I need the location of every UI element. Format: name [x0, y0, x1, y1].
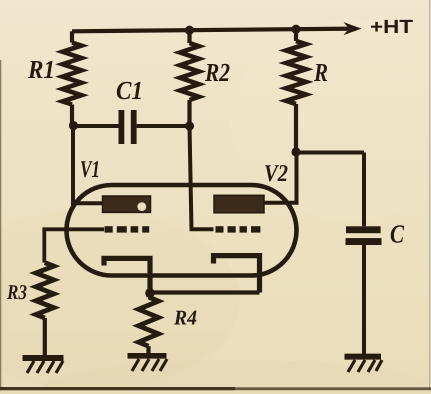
node A (R1 / C1 junction) [69, 121, 78, 130]
anode V2 (plate) [214, 195, 264, 213]
wire C bottom lead [362, 245, 366, 355]
page edge right [429, 0, 430, 390]
tube V1 V2 envelope [67, 185, 297, 276]
label C [391, 225, 404, 242]
grid V1 (dashes) [105, 226, 150, 232]
label +HT [371, 20, 413, 33]
resistor R [294, 29, 298, 41]
cathode V2 [214, 256, 260, 293]
label V2 [265, 165, 287, 181]
wire C1 right lead [137, 124, 190, 128]
capacitor C1 [119, 110, 125, 144]
node cathode junction [145, 288, 155, 298]
wire HT rail [72, 29, 356, 32]
resistor R3 [36, 263, 54, 318]
label C1 [117, 82, 141, 99]
wire node B to V2 grid [190, 126, 214, 229]
node B (R2 bottom / C1 right junction) [185, 121, 194, 130]
node C (R bottom junction) [291, 147, 300, 156]
label R3 [7, 285, 27, 299]
node R top on HT rail [291, 25, 300, 34]
resistor R4 [146, 293, 151, 297]
ground for R4 [128, 356, 168, 371]
anode V1 (plate) [103, 196, 151, 212]
wire cathode bus [150, 290, 260, 294]
wire C top lead [362, 153, 366, 227]
wire node C to capacitor C [296, 151, 364, 155]
wire V1 grid to R3 [44, 229, 104, 262]
wire C1 left lead [73, 124, 119, 128]
page edge bottom [0, 387, 431, 390]
label R [314, 64, 327, 81]
label R1 [28, 61, 53, 78]
cathode V1 [104, 258, 150, 292]
arrow +HT [344, 22, 362, 35]
resistor R1 [70, 31, 74, 42]
wire node C to V2 anode [264, 152, 297, 203]
node R2 top on HT rail [185, 26, 194, 35]
wire node A to V1 anode [73, 126, 102, 203]
resistor R2 [187, 30, 191, 43]
ground for C [345, 357, 383, 372]
page edge left [0, 60, 1, 394]
label R2 [205, 64, 230, 81]
ground for R3 [23, 358, 64, 373]
grid V2 (dashes) [216, 226, 261, 232]
label V1 [81, 161, 98, 177]
label R4 [174, 311, 196, 325]
capacitor C [346, 226, 381, 233]
